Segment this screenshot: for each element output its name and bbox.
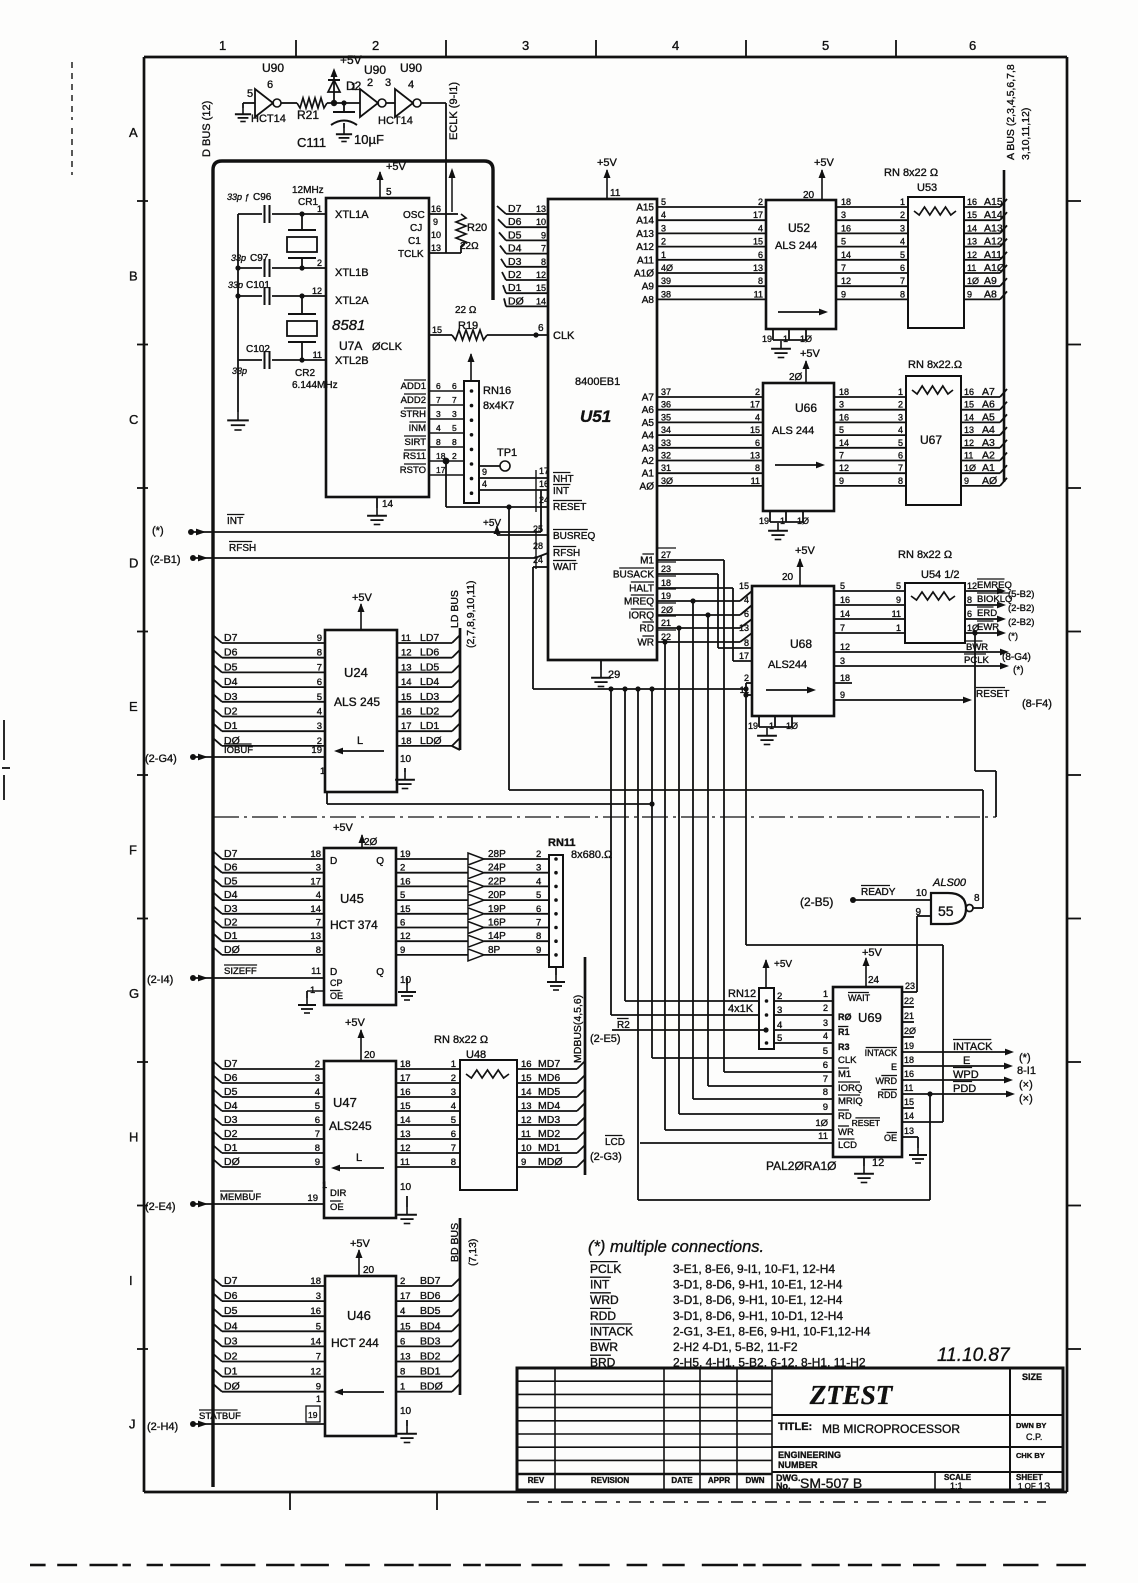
svg-text:3: 3: [436, 409, 441, 419]
svg-text:1: 1: [823, 989, 828, 999]
svg-text:DWN: DWN: [745, 1476, 764, 1485]
svg-text:2-G1, 3-E1, 8-E6, 9-H1, 10-F1,: 2-G1, 3-E1, 8-E6, 9-H1, 10-F1,12-H4: [673, 1324, 871, 1338]
wire U69 WAIT to nand pin 9: [902, 981, 917, 992]
svg-text:15: 15: [400, 1101, 411, 1112]
svg-text:WAIT: WAIT: [848, 993, 871, 1003]
svg-text:18: 18: [310, 849, 321, 860]
svg-text:Q: Q: [376, 967, 384, 978]
svg-text:U53: U53: [917, 182, 937, 194]
svg-text:2: 2: [317, 258, 322, 268]
svg-text:15: 15: [967, 210, 977, 220]
resistor network U53 RN 8x22: [884, 167, 964, 328]
resistor network RN16 8x4K7: [464, 353, 514, 503]
transceiver U24 ALS245: [325, 630, 397, 792]
svg-text:3: 3: [536, 863, 541, 874]
svg-text:18: 18: [400, 1059, 411, 1070]
svg-text:3: 3: [385, 77, 391, 89]
scan artifact marks left margin: [2, 62, 72, 800]
svg-text:2Ø: 2Ø: [789, 372, 803, 383]
svg-text:7: 7: [841, 263, 846, 273]
svg-text:B: B: [129, 269, 138, 284]
svg-text:A14: A14: [636, 216, 654, 227]
svg-text:A9: A9: [642, 282, 655, 293]
ground pin 10 of U46: [397, 1406, 417, 1443]
svg-text:5: 5: [451, 1115, 456, 1126]
junction RS11 node: [443, 458, 548, 507]
svg-text:3: 3: [823, 1018, 828, 1028]
svg-text:7: 7: [316, 918, 321, 929]
svg-text:D2: D2: [224, 1128, 238, 1140]
svg-text:9: 9: [541, 230, 546, 240]
svg-text:11: 11: [521, 1129, 531, 1140]
svg-text:TCLK: TCLK: [398, 249, 424, 260]
svg-text:10: 10: [521, 1143, 532, 1154]
svg-text:(2-B2): (2-B2): [1008, 617, 1034, 628]
svg-text:8: 8: [452, 437, 457, 447]
svg-text:1Ø: 1Ø: [786, 721, 798, 731]
svg-text:14: 14: [964, 412, 974, 422]
svg-text:6: 6: [451, 1129, 456, 1140]
resistor network U54 RN 8x22 half: [898, 549, 965, 643]
svg-text:3-D1, 8-D6, 9-H1, 10-D1, 12-H4: 3-D1, 8-D6, 9-H1, 10-D1, 12-H4: [673, 1309, 843, 1323]
svg-text:A2: A2: [982, 450, 995, 462]
svg-text:R20: R20: [467, 222, 487, 234]
resistor network U67 RN 8x22: [906, 359, 962, 505]
svg-text:17: 17: [310, 876, 321, 887]
svg-text:RN12: RN12: [728, 988, 756, 1000]
svg-text:2: 2: [823, 1003, 828, 1013]
svg-text:1: 1: [783, 334, 788, 344]
svg-text:A4: A4: [642, 431, 655, 442]
svg-text:19: 19: [748, 721, 758, 731]
svg-text:39: 39: [661, 276, 671, 286]
svg-text:XTL1B: XTL1B: [335, 267, 369, 279]
svg-text:17: 17: [400, 1073, 411, 1084]
resistor network RN11 8x680: [548, 837, 612, 967]
svg-text:9: 9: [896, 595, 901, 605]
svg-text:14: 14: [840, 609, 850, 619]
buffer U52 ALS244: [766, 200, 836, 329]
svg-text:RESET: RESET: [852, 1118, 880, 1128]
svg-text:+5V: +5V: [800, 348, 821, 360]
wire MEMBUF from 2-E4: [145, 1180, 327, 1213]
svg-text:4: 4: [436, 423, 441, 433]
svg-text:CJ: CJ: [410, 223, 422, 234]
svg-text:U46: U46: [347, 1308, 371, 1323]
svg-text:J: J: [129, 1417, 136, 1432]
svg-text:L: L: [356, 1152, 362, 1164]
svg-text:+5V: +5V: [333, 822, 354, 834]
svg-text:14: 14: [521, 1087, 532, 1098]
svg-text:10: 10: [400, 975, 412, 986]
svg-text:11.10.87: 11.10.87: [937, 1345, 1011, 1366]
svg-text:10: 10: [536, 217, 546, 227]
svg-text:11: 11: [818, 1131, 828, 1142]
svg-text:4: 4: [898, 425, 903, 435]
svg-text:(2-E5): (2-E5): [590, 1033, 621, 1045]
svg-text:17: 17: [401, 721, 412, 732]
svg-text:2: 2: [661, 237, 666, 247]
svg-text:21: 21: [904, 1011, 914, 1021]
svg-text:(2-G3): (2-G3): [590, 1151, 622, 1163]
svg-text:4: 4: [672, 38, 679, 53]
svg-text:MD1: MD1: [538, 1142, 560, 1154]
svg-text:22Ω: 22Ω: [460, 241, 479, 252]
svg-text:PAL2ØRA1Ø: PAL2ØRA1Ø: [766, 1159, 836, 1173]
svg-text:ALS 244: ALS 244: [772, 425, 814, 437]
svg-text:BWR: BWR: [966, 642, 988, 653]
svg-text:11: 11: [967, 263, 976, 273]
svg-text:U54 1/2: U54 1/2: [921, 569, 960, 581]
svg-text:WAIT: WAIT: [553, 562, 578, 573]
svg-text:CLK: CLK: [838, 1055, 857, 1066]
svg-text:+5V: +5V: [345, 1017, 366, 1029]
svg-text:33p: 33p: [228, 280, 243, 290]
svg-text:25: 25: [533, 524, 543, 534]
svg-text:11: 11: [311, 966, 321, 977]
svg-text:1: 1: [400, 1382, 405, 1393]
top ruler ticks: [296, 40, 896, 57]
svg-text:8: 8: [541, 257, 546, 267]
wires RN12 to U69: [774, 989, 833, 1044]
svg-text:(2-H4): (2-H4): [147, 1421, 178, 1433]
svg-text:2: 2: [777, 991, 782, 1002]
svg-text:A12: A12: [984, 236, 1003, 248]
svg-text:9: 9: [317, 633, 322, 644]
svg-text:6: 6: [898, 451, 903, 461]
svg-text:BD1: BD1: [420, 1366, 441, 1378]
svg-text:1: 1: [769, 721, 774, 731]
svg-text:C101: C101: [246, 280, 270, 291]
crystal CR1 12MHz: [287, 185, 324, 271]
svg-text:20: 20: [363, 1265, 375, 1276]
svg-text:2: 2: [367, 77, 373, 89]
U69 left pin numbers: [815, 1046, 828, 1142]
svg-text:6: 6: [758, 250, 763, 260]
svg-text:5: 5: [316, 1321, 321, 1332]
svg-text:7: 7: [317, 662, 322, 673]
svg-text:(×): (×): [1019, 1093, 1033, 1105]
wire E output: [902, 1055, 1036, 1077]
svg-text:M1: M1: [640, 556, 654, 567]
svg-text:10µF: 10µF: [354, 132, 384, 147]
svg-text:10: 10: [400, 1406, 412, 1417]
svg-text:DØ: DØ: [224, 1156, 240, 1168]
svg-text:6: 6: [317, 677, 322, 688]
svg-text:33p: 33p: [232, 366, 247, 376]
svg-text:16: 16: [964, 387, 974, 397]
svg-text:29: 29: [608, 669, 620, 681]
svg-text:5: 5: [315, 1101, 320, 1112]
svg-text:5: 5: [247, 88, 253, 100]
bottom ticks: [290, 1492, 437, 1510]
svg-text:BD BUS: BD BUS: [449, 1223, 461, 1262]
svg-text:LCD: LCD: [838, 1140, 857, 1151]
svg-text:MRIQ: MRIQ: [838, 1096, 863, 1107]
svg-text:ECLK (9-I1): ECLK (9-I1): [448, 82, 460, 140]
svg-text:2: 2: [372, 38, 379, 53]
capacitor C102: [238, 351, 326, 369]
svg-text:LD4: LD4: [420, 676, 439, 688]
svg-text:RØ: RØ: [838, 1012, 852, 1022]
svg-text:7: 7: [451, 1143, 456, 1154]
svg-text:11: 11: [400, 1157, 410, 1168]
svg-text:MDØ: MDØ: [538, 1156, 563, 1168]
svg-text:RSTO: RSTO: [400, 465, 426, 476]
svg-text:A15: A15: [636, 203, 654, 214]
svg-text:9: 9: [964, 476, 969, 486]
left row ticks: [137, 201, 148, 1349]
D bus spine left: [201, 101, 493, 1487]
svg-text:7: 7: [315, 1129, 320, 1140]
svg-text:1: 1: [900, 197, 905, 207]
svg-text:8: 8: [900, 289, 905, 299]
svg-text:BDØ: BDØ: [420, 1381, 443, 1393]
svg-text:D1: D1: [224, 1366, 238, 1378]
svg-text:22P: 22P: [488, 876, 506, 887]
svg-text:12: 12: [872, 1157, 884, 1169]
svg-text:17: 17: [753, 210, 763, 220]
svg-text:16: 16: [839, 412, 849, 422]
svg-text:2: 2: [400, 1276, 405, 1287]
svg-text:12: 12: [967, 581, 977, 591]
transceiver U47 ALS245: [324, 1061, 396, 1218]
svg-text:6: 6: [744, 609, 749, 619]
svg-text:LD2: LD2: [420, 706, 439, 718]
svg-text:12: 12: [400, 1143, 411, 1154]
border frame: [144, 57, 1067, 1492]
svg-text:4: 4: [823, 1031, 828, 1041]
svg-text:15: 15: [400, 904, 411, 915]
svg-text:37: 37: [661, 387, 671, 397]
svg-text:IOBUF: IOBUF: [224, 745, 253, 756]
wire IOBUF from 2-G4: [145, 744, 325, 765]
svg-text:8: 8: [898, 476, 903, 486]
svg-text:LCD: LCD: [605, 1137, 625, 1148]
wire BUSACK drop: [717, 574, 719, 648]
svg-text:6: 6: [436, 381, 441, 391]
svg-text:D1: D1: [224, 720, 238, 732]
svg-text:4: 4: [482, 479, 487, 489]
wire EWR tap down to dash-dot crease: [972, 630, 996, 817]
buffer U46 HCT244: [325, 1276, 396, 1436]
svg-text:15: 15: [904, 1097, 914, 1107]
svg-text:XTL2A: XTL2A: [335, 295, 369, 307]
svg-text:3-D1, 8-D6, 9-H1, 10-E1, 12-H4: 3-D1, 8-D6, 9-H1, 10-E1, 12-H4: [673, 1293, 843, 1307]
svg-text:3,10,11,12): 3,10,11,12): [1020, 108, 1032, 160]
svg-text:21: 21: [661, 618, 671, 628]
svg-text:6: 6: [755, 438, 760, 448]
svg-text:13: 13: [964, 425, 974, 435]
svg-text:6: 6: [538, 323, 544, 334]
wire riser U68 pins 2 11: [743, 683, 748, 945]
svg-text:A3: A3: [642, 443, 655, 454]
svg-text:9: 9: [536, 945, 541, 956]
svg-text:+5V: +5V: [386, 161, 407, 173]
svg-text:4: 4: [744, 595, 749, 605]
svg-text:(2-I4): (2-I4): [147, 974, 173, 986]
svg-text:U90: U90: [400, 61, 422, 75]
ground pins 19 1 10 of U68: [748, 716, 798, 745]
resistor R20 22ohm: [456, 214, 487, 252]
svg-text:EMREQ: EMREQ: [977, 580, 1012, 591]
svg-text:19: 19: [400, 849, 411, 860]
wire PCLK drop: [635, 686, 640, 1200]
svg-text:3-D1, 8-D6, 9-H1, 10-E1, 12-H4: 3-D1, 8-D6, 9-H1, 10-E1, 12-H4: [673, 1278, 843, 1292]
svg-text:ALS244: ALS244: [768, 659, 807, 671]
svg-text:A: A: [129, 125, 138, 140]
svg-text:31: 31: [661, 463, 671, 473]
svg-text:24: 24: [539, 495, 549, 505]
svg-text:ƒ: ƒ: [245, 193, 249, 202]
svg-text:PCLK: PCLK: [964, 655, 989, 666]
svg-text:12: 12: [400, 931, 411, 942]
svg-text:2: 2: [315, 1059, 320, 1070]
svg-text:7: 7: [839, 451, 844, 461]
svg-text:9: 9: [400, 945, 405, 956]
svg-text:12: 12: [840, 642, 850, 652]
svg-text:D3: D3: [224, 691, 238, 703]
svg-text:A7: A7: [642, 393, 655, 404]
svg-text:U67: U67: [920, 433, 942, 447]
svg-text:16: 16: [904, 1069, 914, 1079]
wire RDD output: [902, 1082, 1033, 1106]
ground pins 19 1 10 of U52: [762, 329, 812, 358]
svg-text:7: 7: [900, 276, 905, 286]
svg-text:34: 34: [661, 425, 671, 435]
svg-text:24P: 24P: [488, 863, 506, 874]
wires U52 to U53: [836, 197, 908, 299]
svg-text:OE: OE: [330, 1202, 344, 1213]
svg-text:(*) multiple connections.: (*) multiple connections.: [588, 1238, 764, 1256]
wire U24 pin1 loop to PCLK drop: [320, 766, 652, 804]
svg-text:3-E1, 8-E6, 9-I1, 10-F1, 12-H4: 3-E1, 8-E6, 9-I1, 10-F1, 12-H4: [673, 1262, 835, 1276]
svg-text:13: 13: [431, 243, 441, 253]
wires U68 to U54: [834, 581, 905, 633]
svg-text:ENGINEERING: ENGINEERING: [778, 1450, 841, 1460]
svg-text:ALS 244: ALS 244: [775, 240, 817, 252]
svg-text:16: 16: [431, 204, 441, 214]
svg-text:R3: R3: [838, 1042, 850, 1052]
svg-text:HCT14: HCT14: [251, 113, 286, 125]
svg-text:INM: INM: [409, 423, 427, 434]
svg-text:16: 16: [840, 595, 850, 605]
wires U51 A7-A0 to U66: [640, 387, 763, 492]
wire drop to RN12 row2: [608, 686, 759, 1015]
svg-text:R1: R1: [838, 1027, 850, 1037]
svg-text:1: 1: [322, 1180, 327, 1191]
svg-text:D5: D5: [508, 229, 522, 241]
svg-text:4: 4: [400, 1306, 405, 1317]
wires U67 to A bus: [961, 386, 1007, 487]
svg-text:32: 32: [661, 451, 671, 461]
wires U7A to RN16: [400, 380, 464, 476]
svg-text:8: 8: [758, 276, 763, 286]
svg-text:7: 7: [840, 623, 845, 633]
LD bus spine: [449, 580, 477, 750]
svg-text:11: 11: [313, 350, 322, 360]
wire OE pin 13 to ground: [902, 1126, 927, 1163]
svg-text:A15: A15: [984, 196, 1003, 208]
svg-text:6: 6: [315, 1115, 320, 1126]
svg-text:5: 5: [896, 581, 901, 591]
svg-text:23: 23: [905, 981, 915, 991]
svg-text:27: 27: [661, 550, 671, 560]
svg-text:7: 7: [898, 463, 903, 473]
svg-text:D1: D1: [224, 930, 238, 942]
svg-text:MEMBUF: MEMBUF: [220, 1192, 261, 1203]
svg-text:18: 18: [840, 673, 850, 683]
wire READY from 2-B5: [800, 886, 931, 910]
svg-text:8: 8: [744, 638, 749, 648]
ground pin 10 of U47: [397, 1182, 417, 1224]
capacitor C96: [227, 192, 326, 223]
svg-text:4: 4: [900, 237, 905, 247]
svg-text:A4: A4: [982, 424, 995, 436]
svg-text:BD5: BD5: [420, 1305, 441, 1317]
svg-text:(2-B5): (2-B5): [800, 895, 833, 909]
svg-text:16P: 16P: [488, 918, 506, 929]
wires U47 to U48: [396, 1059, 460, 1168]
svg-text:MD3: MD3: [538, 1114, 560, 1126]
svg-text:D: D: [330, 967, 337, 978]
svg-text:D3: D3: [224, 903, 238, 915]
svg-text:12: 12: [401, 648, 412, 659]
svg-text:12: 12: [964, 438, 974, 448]
svg-text:3: 3: [839, 400, 844, 410]
svg-text:MDBUS(4,5,6): MDBUS(4,5,6): [572, 995, 584, 1063]
svg-text:24: 24: [868, 975, 880, 986]
svg-text:10: 10: [400, 754, 412, 765]
svg-text:19: 19: [904, 1041, 914, 1051]
svg-text:A BUS (2,3,4,5,6,7,8: A BUS (2,3,4,5,6,7,8: [1005, 64, 1017, 160]
+5V pin 20 of U66: [789, 348, 821, 383]
svg-text:11: 11: [964, 451, 973, 461]
svg-text:4Ø: 4Ø: [661, 263, 673, 273]
svg-text:7: 7: [452, 395, 457, 405]
svg-text:5: 5: [841, 237, 846, 247]
wires D bus to U47: [214, 1058, 324, 1168]
+5V of U24: [352, 592, 373, 630]
pins BUSREQ RFSH WAIT of U51: [533, 524, 595, 573]
svg-text:E: E: [129, 699, 138, 714]
svg-text:SM-507 B: SM-507 B: [800, 1475, 862, 1491]
svg-text:RN11: RN11: [548, 837, 576, 849]
svg-text:8: 8: [315, 1143, 320, 1154]
svg-text:NUMBER: NUMBER: [778, 1460, 818, 1470]
svg-text:D5: D5: [224, 1305, 238, 1317]
svg-text:15: 15: [536, 283, 546, 293]
svg-text:5: 5: [452, 423, 457, 433]
svg-text:9: 9: [823, 1102, 828, 1113]
svg-text:9: 9: [316, 1382, 321, 1393]
+5V pin 24 of U69: [862, 947, 883, 987]
wires U66 to U67: [834, 387, 906, 486]
svg-text:C1: C1: [408, 236, 421, 247]
svg-text:CHK BY: CHK BY: [1016, 1451, 1045, 1460]
svg-text:16: 16: [400, 876, 411, 887]
svg-text:HCT 374: HCT 374: [330, 918, 378, 932]
ground pins 19 1 10 of U66: [759, 511, 809, 540]
svg-text:3: 3: [898, 412, 903, 422]
svg-text:3: 3: [522, 38, 529, 53]
svg-text:(*): (*): [1019, 1052, 1031, 1064]
wire MREQ drop: [690, 598, 833, 1099]
buffer U68 ALS244: [752, 586, 834, 716]
svg-text:D2: D2: [224, 917, 238, 929]
svg-text:12: 12: [312, 286, 322, 296]
ground at U90a input: [235, 103, 251, 122]
